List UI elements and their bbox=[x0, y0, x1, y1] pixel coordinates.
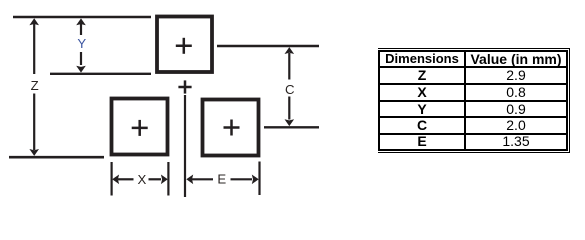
extension line: E right (pad P3 right edge) bbox=[258, 162, 260, 196]
svg-text:E: E bbox=[217, 171, 226, 186]
svg-text:C: C bbox=[285, 82, 295, 97]
dimension Z arrow (vertical, far left) bbox=[29, 18, 39, 156]
dimensions table bbox=[378, 48, 570, 153]
centerline between X and E dimensions bbox=[184, 95, 186, 197]
pad P3 (bottom-right square) bbox=[203, 100, 259, 156]
label C bbox=[285, 82, 295, 97]
extension line: C bottom from pad P3 center bbox=[264, 126, 319, 128]
svg-text:X: X bbox=[138, 172, 147, 187]
extension line: X left (pad P2 left edge) bbox=[110, 162, 112, 196]
pad P2 center mark bbox=[132, 120, 148, 136]
dimension C arrow (vertical, right side) bbox=[285, 47, 295, 126]
label E bbox=[217, 171, 226, 186]
pad P1 (top square) bbox=[157, 17, 212, 73]
pad P3 center mark bbox=[224, 120, 240, 136]
svg-text:Z: Z bbox=[31, 78, 39, 93]
pad P2 (bottom-left square) bbox=[112, 99, 168, 155]
dimension Y arrow (vertical) bbox=[76, 18, 86, 72]
extension line: top edge of pad P1 bbox=[13, 16, 151, 19]
origin center mark (between pads) bbox=[178, 80, 191, 93]
extension line: bottom edge of pad P1 (Y datum) bbox=[50, 73, 151, 75]
label Z bbox=[31, 78, 39, 93]
extension line: bottom edge of pad P2 (Z datum) bbox=[9, 156, 104, 159]
label Y bbox=[77, 36, 86, 51]
label X bbox=[138, 172, 147, 187]
extension line: X right (pad P2 right edge) bbox=[167, 162, 169, 196]
dimension X arrow (horizontal) bbox=[112, 175, 168, 185]
svg-text:Y: Y bbox=[77, 36, 86, 51]
pad P1 center mark bbox=[176, 38, 192, 54]
dimension E arrow (horizontal) bbox=[186, 175, 258, 185]
extension line: C top from pad P1 center bbox=[217, 45, 319, 47]
